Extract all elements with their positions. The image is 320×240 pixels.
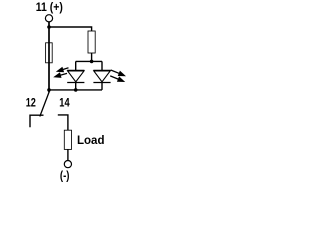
svg-text:14: 14	[59, 97, 70, 109]
svg-text:Load: Load	[77, 133, 105, 147]
svg-text:12: 12	[26, 97, 36, 109]
svg-text:11 (+): 11 (+)	[36, 2, 63, 14]
svg-text:(-): (-)	[60, 171, 70, 183]
